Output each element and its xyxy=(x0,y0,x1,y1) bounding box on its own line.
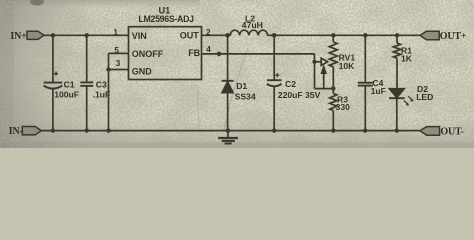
diode D1 xyxy=(227,35,229,80)
wire: ONOFF pin 5 stub xyxy=(109,52,129,54)
IC U1 box xyxy=(129,27,202,80)
svg-text:LM2596S-ADJ: LM2596S-ADJ xyxy=(138,14,194,24)
paper streak lines xyxy=(198,88,200,130)
junction: ground rail / C2 xyxy=(272,128,276,132)
potentiometer RV1 xyxy=(332,35,334,42)
wire: FB net to RV1/R3 junction xyxy=(315,88,334,90)
svg-text:D1: D1 xyxy=(236,81,247,91)
svg-text:C3: C3 xyxy=(96,80,107,90)
junction: VIN rail / C1 xyxy=(51,33,55,37)
resistor R1 xyxy=(396,35,398,43)
wire: output rail L2 to OUT+ xyxy=(267,34,420,36)
svg-text:3: 3 xyxy=(116,59,121,68)
paper background xyxy=(0,0,474,148)
junction: ground rail / R3 xyxy=(331,128,335,132)
wire: top input rail IN+ to VIN xyxy=(43,34,129,36)
junction: FB pin wire xyxy=(217,52,222,57)
svg-text:IN+: IN+ xyxy=(10,31,27,42)
svg-text:4: 4 xyxy=(206,45,211,54)
svg-text:10K: 10K xyxy=(339,61,356,71)
inductor L2 xyxy=(230,30,267,35)
svg-text:OUT: OUT xyxy=(180,30,200,40)
svg-text:5: 5 xyxy=(114,46,119,55)
svg-text:FB: FB xyxy=(188,48,200,58)
connector tag OUT+ xyxy=(420,31,439,40)
svg-text:VIN: VIN xyxy=(132,31,147,41)
junction: ground rail / C3 xyxy=(85,128,89,132)
svg-text:OUT+: OUT+ xyxy=(440,31,467,42)
junction: output rail / C2 xyxy=(272,33,277,38)
junction: FB / RV1 wiper xyxy=(312,60,316,64)
junction: VIN rail / C3 xyxy=(85,33,89,37)
svg-text:1K: 1K xyxy=(401,53,413,63)
capacitor C4 xyxy=(364,35,366,82)
connector tag OUT- xyxy=(420,127,440,136)
junction: ground rail / D2 xyxy=(395,128,399,132)
paper smudge top xyxy=(30,0,44,6)
svg-text:220uF 35V: 220uF 35V xyxy=(278,90,321,100)
junction: RV1 / R3 / FB xyxy=(331,86,335,90)
svg-text:ONOFF: ONOFF xyxy=(132,49,164,59)
svg-text:1uF: 1uF xyxy=(371,86,386,96)
wire: FB net vertical drop xyxy=(314,54,316,89)
junction: output rail / RV1 xyxy=(331,33,335,37)
junction: switch node / D1 / L2 xyxy=(225,33,230,38)
svg-text:OUT-: OUT- xyxy=(440,127,463,138)
junction: ground rail / GND tie xyxy=(106,128,110,132)
junction: ground rail / C1 xyxy=(51,128,55,132)
LED D2 xyxy=(389,89,404,98)
capacitor C3 xyxy=(86,35,88,82)
svg-text:SS34: SS34 xyxy=(235,91,256,101)
resistor R3 xyxy=(332,89,334,94)
connector tag IN+ xyxy=(27,31,44,39)
junction: ground rail / D1 / ground symbol xyxy=(226,128,231,133)
svg-text:330: 330 xyxy=(336,102,351,112)
svg-text:1: 1 xyxy=(113,28,118,37)
wire: RV1 wiper stub xyxy=(315,61,322,63)
junction: ONOFF tie / GND pin xyxy=(106,67,110,71)
paper crease near D1 xyxy=(224,48,248,130)
svg-text:C2: C2 xyxy=(285,79,296,89)
svg-text:GND: GND xyxy=(132,66,153,76)
svg-text:100uF: 100uF xyxy=(54,90,79,100)
junction: output rail / R1 xyxy=(395,33,399,37)
capacitor C2 xyxy=(273,35,275,80)
wire: OUT pin 2 to switch node xyxy=(202,34,231,36)
junction: output rail / C4 xyxy=(363,33,367,37)
capacitor C1 xyxy=(52,35,54,82)
svg-text:C1: C1 xyxy=(64,80,75,90)
wire: ONOFF/GND tie down to ground rail xyxy=(108,53,110,130)
wire: FB pin 4 horizontal run xyxy=(202,53,315,55)
svg-text:2: 2 xyxy=(206,28,211,37)
svg-text:LED: LED xyxy=(416,92,433,102)
svg-text:IN-: IN- xyxy=(9,126,23,137)
wire: GND pin 3 stub xyxy=(109,69,129,71)
ground xyxy=(227,131,229,138)
connector tag IN- xyxy=(22,127,41,135)
wire: bottom ground rail xyxy=(41,130,420,132)
junction: ground rail / C4 xyxy=(363,128,367,132)
svg-text:.1uF: .1uF xyxy=(93,90,111,100)
svg-text:47uH: 47uH xyxy=(242,20,263,30)
